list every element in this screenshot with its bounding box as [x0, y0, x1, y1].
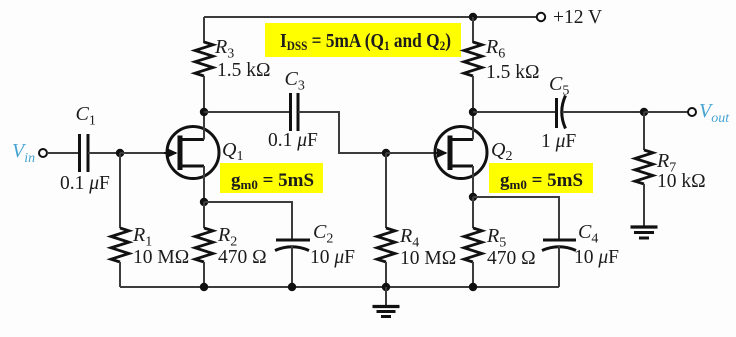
wire Q2 source to C4 [473, 197, 559, 240]
value 1.5 kOhm [486, 62, 540, 83]
transistor Q1 [164, 127, 219, 179]
resistor R7 [635, 112, 653, 184]
wire R5 bottom stem [472, 262, 474, 287]
wire Q2 drain vertical [472, 112, 474, 140]
wire Q2 source vertical [472, 166, 474, 197]
svg-text:10 kΩ: 10 kΩ [657, 171, 706, 192]
wire C5 to output node [562, 111, 644, 113]
terminal Vout [688, 108, 696, 116]
svg-text:10 MΩ: 10 MΩ [400, 248, 456, 269]
svg-text:10 μF: 10 μF [574, 247, 619, 268]
label C2 [313, 221, 333, 247]
value 470 Ohm [487, 248, 536, 269]
label C5 [549, 73, 569, 99]
svg-text:+12 V: +12 V [553, 7, 602, 28]
wire gate node to Q1 [120, 152, 167, 154]
transistor Q2 [434, 127, 487, 179]
wire ground stem [385, 287, 387, 305]
wire C4 bottom [558, 246, 560, 287]
label C4 [578, 221, 598, 247]
label R7 [656, 150, 676, 176]
label R3 [214, 36, 234, 62]
resistor R2 [195, 228, 213, 262]
value 1 uF [541, 131, 576, 152]
label R6 [485, 36, 505, 62]
yellow callout box gm0 stage 1 [220, 163, 323, 193]
junction output node [640, 108, 648, 116]
label Q1 [222, 139, 243, 164]
label Vout [699, 100, 730, 126]
wire R1 stem [119, 153, 121, 228]
wire R3 bottom stem [203, 76, 205, 112]
value 10 uF [310, 247, 355, 268]
wire bottom rail [120, 286, 559, 288]
wire output node to Vout [644, 111, 688, 113]
wire R7 to ground [643, 184, 645, 226]
junction Q1 source node [200, 198, 208, 206]
yellow callout box IDSS [265, 23, 461, 57]
terminal +12V [537, 13, 545, 21]
svg-text:0.1 μF: 0.1 μF [60, 173, 110, 194]
wire R3 top stem [203, 17, 205, 43]
value 10 MOhm [400, 248, 456, 269]
wire R6 top stem [472, 17, 474, 43]
wire R1 bottom stem [119, 262, 121, 287]
junction R5 bottom [469, 283, 477, 291]
wire C3 to Q2 gate node [298, 112, 386, 153]
yellow callout box gm0 stage 2 [489, 163, 593, 193]
junction Q2 source node [469, 193, 477, 201]
junction R4 bottom [382, 283, 390, 291]
label R5 [486, 225, 506, 251]
wire Q1 source to C2 [204, 202, 292, 240]
wire R2 bottom stem [203, 262, 205, 287]
wire gate node to Q2 [386, 152, 435, 154]
label C3 [285, 68, 305, 94]
resistor R5 [464, 228, 482, 262]
value 0.1 uF [60, 173, 110, 194]
capacitor C1 [80, 134, 89, 172]
wire Vin to C1 [47, 152, 79, 154]
capacitor C2 [275, 240, 310, 251]
label +12 V [553, 7, 602, 28]
capacitor C4 [542, 240, 576, 251]
wire C1 to gate node [88, 152, 120, 154]
terminal Vin [39, 149, 47, 157]
value 10 uF [574, 247, 619, 268]
junction C2 bottom [288, 283, 296, 291]
wire R5 top stem [472, 197, 474, 228]
junction top rail to R6 [469, 13, 477, 21]
wire R2 top stem [203, 202, 205, 228]
label R2 [217, 224, 237, 250]
svg-text:1.5 kΩ: 1.5 kΩ [217, 60, 271, 81]
ground R7 [631, 227, 658, 238]
value 10 MOhm [133, 247, 189, 268]
resistor R6 [464, 42, 482, 76]
wire Q1 source vertical [203, 166, 205, 202]
resistor R1 [111, 228, 129, 262]
value 10 kOhm [657, 171, 706, 192]
ground main [373, 307, 400, 317]
wire R4 bottom stem [385, 262, 387, 287]
junction R2 bottom [200, 283, 208, 291]
resistor R3 [195, 42, 213, 76]
wire R4 stem [385, 153, 387, 228]
wire C2 bottom [291, 246, 293, 287]
label R4 [399, 225, 419, 251]
junction Q2 drain node [469, 108, 477, 116]
junction Q1 drain node [200, 108, 208, 116]
label Q2 [491, 139, 512, 164]
capacitor C5 [557, 96, 566, 129]
wire Q1 drain vertical [203, 112, 205, 140]
svg-text:1.5 kΩ: 1.5 kΩ [486, 62, 540, 83]
label C1 [76, 103, 96, 129]
value 0.1 uF [268, 130, 318, 151]
svg-text:470 Ω: 470 Ω [487, 248, 536, 269]
svg-text:0.1 μF: 0.1 μF [268, 130, 318, 151]
label R1 [132, 224, 152, 250]
label Vin [12, 140, 35, 166]
wire top supply rail [204, 16, 537, 18]
svg-text:470 Ω: 470 Ω [218, 247, 267, 268]
capacitor C3 [291, 93, 299, 131]
value 470 Ohm [218, 247, 267, 268]
junction Q2 gate node [382, 149, 390, 157]
resistor R4 [377, 228, 395, 262]
wire R6 bottom stem [472, 76, 474, 112]
wire drain node to C5 [473, 111, 556, 113]
svg-text:10 MΩ: 10 MΩ [133, 247, 189, 268]
svg-text:10 μF: 10 μF [310, 247, 355, 268]
svg-text:1 μF: 1 μF [541, 131, 576, 152]
value 1.5 kOhm [217, 60, 271, 81]
wire drain node to C3 [204, 111, 290, 113]
junction gate node Q1 [116, 149, 124, 157]
